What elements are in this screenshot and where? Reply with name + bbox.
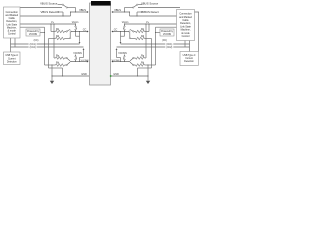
- wire V+ drop to Rp2 (right): [145, 24, 147, 58]
- wire block to CC2 line: [14, 38, 16, 47]
- wire Rd1 ground drop: [48, 39, 50, 69]
- wire block to detection box (right): [189, 38, 191, 52]
- switch SW-VBUS (VBUS Source) (right): [138, 4, 143, 6]
- resistor Rd2 (right): [136, 64, 145, 66]
- wire VCONN node to cable (right): [113, 61, 130, 63]
- block: USB Type-C Current Detection (right): [180, 52, 198, 66]
- switch SW1b (right): [130, 38, 135, 40]
- resistor Rp1 (right): [136, 30, 145, 32]
- resistor Rp1: [56, 30, 65, 32]
- resistor Rd1: [56, 37, 65, 39]
- wire (right): [124, 8, 126, 13]
- resistor Rp2 (right): [136, 57, 145, 59]
- wire V+ drop to Rp1 (right): [148, 24, 150, 32]
- wire gnd link drop: [62, 68, 64, 76]
- wire CC2 sense line (right): [117, 46, 190, 48]
- wire V+/Vconn rail (right): [125, 23, 181, 25]
- wire from Powered-by-VCONN box (right): [156, 32, 161, 34]
- switch SW1a (right): [134, 31, 136, 33]
- resistor Rp2: [56, 57, 65, 59]
- wire CC node to cable: [71, 31, 87, 33]
- wire CC node to cable (right): [113, 31, 129, 33]
- block: USB Type-C Current Detection (left): [4, 52, 21, 65]
- wire CC1 sense line: [11, 43, 80, 45]
- wire GND to cable: [52, 75, 89, 77]
- wire (right): [125, 7, 133, 9]
- wire Rd1 left (right): [145, 38, 152, 40]
- label CC2: [29, 46, 37, 49]
- wire block to CC2 line (right): [184, 38, 186, 47]
- block: Powered by VCONN (left): [26, 29, 40, 36]
- block: Connection and Marked Cable Detection (left port): [4, 7, 21, 38]
- wire gnd link drop (right): [137, 68, 139, 76]
- wire Rd1 left: [49, 38, 56, 40]
- wire gnd link: [49, 67, 63, 69]
- block: Powered by VCONN (right): [160, 29, 174, 36]
- wire gnd link (right): [138, 67, 152, 69]
- cable plug black cap: [91, 1, 111, 6]
- switch SW-VBUS (VBUS Source): [58, 4, 63, 6]
- ground: [50, 81, 54, 84]
- wire: [68, 7, 76, 9]
- switch SW-VCONN2: [75, 55, 77, 56]
- cable body: [90, 3, 111, 85]
- wire CC1 sense line (right): [121, 43, 190, 45]
- wire from Powered-by-VCONN box: [40, 32, 45, 34]
- switch SW2a (right): [134, 57, 136, 59]
- label CC2 right: [165, 46, 173, 49]
- switch SW-VCONN2 (right): [124, 55, 126, 56]
- resistor Rd1 (right): [136, 37, 145, 39]
- wire CC2 sense line: [11, 46, 84, 48]
- switch SW2b: [65, 64, 67, 66]
- wire VBUS to cable (right): [113, 11, 130, 13]
- wire GND to cable (right): [111, 75, 148, 77]
- wire rail2 to CC: [20, 26, 45, 28]
- wire VBUS source rail: [20, 7, 62, 9]
- wire Rd2 to ground (right): [145, 64, 156, 66]
- switch SW1a: [65, 31, 67, 33]
- switch SW1b: [65, 38, 70, 40]
- wire block to detection box: [10, 38, 12, 52]
- switch SW-VCONN1 (right): [124, 24, 126, 26]
- label CC1 right: [165, 43, 173, 46]
- wire VBUS to cable: [71, 11, 88, 13]
- wire Rd1 ground drop (right): [151, 39, 153, 69]
- switch SW-VCONN1: [75, 24, 77, 26]
- switch SW2a: [65, 57, 67, 59]
- wire V+ drop to Rp1: [50, 24, 52, 32]
- wire CC2 monitor tap (right): [116, 48, 118, 50]
- label CC1: [29, 43, 37, 46]
- ground (right): [146, 81, 150, 84]
- right port wires (mirrored): [111, 4, 190, 84]
- wire VBUS detect tap: [58, 11, 63, 13]
- switch SW2b (right): [134, 64, 136, 66]
- wire far right: [195, 12, 199, 52]
- wire VBUS detect tap (right): [137, 11, 142, 13]
- block: Connection and Marked Cable Detection (right port): [177, 10, 195, 41]
- wire CC1 monitor tap: [79, 31, 80, 32]
- wire: [75, 8, 77, 13]
- wire rail2 to CC (right): [156, 26, 181, 28]
- left port wires: [11, 4, 90, 84]
- wire V+/Vconn rail: [20, 23, 76, 25]
- wire CC1 monitor tap (right): [120, 31, 121, 32]
- wire VBUS source rail (right): [138, 7, 180, 9]
- wire VCONN node to cable: [71, 61, 88, 63]
- wire CC2 monitor tap: [83, 48, 85, 50]
- resistor Rd2: [56, 64, 65, 66]
- wire Rd2 to ground: [45, 64, 56, 66]
- wire V+ drop to Rp2: [53, 24, 55, 58]
- cable gnd pin mark (green): [110, 75, 111, 77]
